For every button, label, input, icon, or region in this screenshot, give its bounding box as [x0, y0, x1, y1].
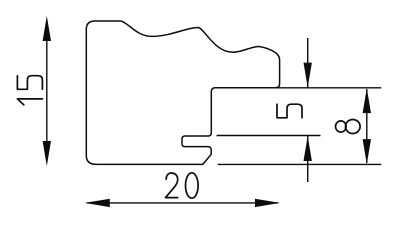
extension line bottom (y=164.4) [218, 163, 382, 165]
dimension 15 text [17, 76, 42, 105]
dimension 5 upper shaft [307, 38, 309, 88]
dimension 20 line [87, 202, 278, 204]
dimension 5 arrow down [304, 63, 312, 88]
dimension 8 text [336, 120, 361, 134]
dimension 8 arrow down [363, 139, 371, 164]
dimension 20 text [166, 173, 199, 198]
dimension 5 lower shaft [307, 136, 309, 183]
dimension 15 arrow down [43, 141, 51, 166]
dimension 8 line [366, 89, 368, 163]
dimension 15 arrow up [43, 16, 51, 41]
dimension 5 arrow up [304, 136, 312, 161]
extension line rabbet ledge (y=87.8) [270, 87, 381, 89]
moulding profile outline [86, 21, 279, 164]
dimension 20 arrow left [85, 199, 110, 207]
dimension 20 arrow right [255, 199, 280, 207]
extension line groove top (y=135.8) [217, 135, 321, 137]
dimension 5 text [277, 104, 302, 118]
dimension 15 line [46, 40, 48, 142]
dimension 8 arrow up [363, 88, 371, 113]
